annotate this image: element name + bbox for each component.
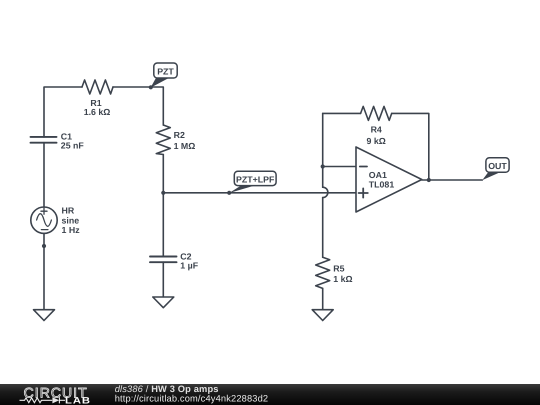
label HR value (62, 206, 81, 236)
ground (153, 297, 174, 308)
wire (163, 192, 356, 194)
svg-text:1 Hz: 1 Hz (62, 225, 81, 235)
svg-text:1 MΩ: 1 MΩ (174, 141, 196, 151)
node junction (161, 191, 165, 195)
svg-text:PZT: PZT (157, 66, 174, 76)
label R4 value (367, 125, 386, 146)
label R2 value (174, 130, 196, 151)
resistor R1 (82, 80, 113, 94)
footer url text (115, 394, 269, 404)
logo CircuitLab (20, 384, 92, 405)
label R1 value (84, 98, 111, 117)
wire (44, 87, 82, 137)
wire (43, 143, 45, 208)
label R5 value (333, 263, 352, 284)
capacitor C2 (150, 257, 177, 263)
wire minus input (323, 166, 356, 168)
resistor R4 (361, 106, 392, 120)
svg-text:25 nF: 25 nF (61, 140, 85, 150)
wire (162, 262, 164, 297)
ground (34, 310, 55, 321)
wire (43, 233, 45, 309)
svg-text:dls386 / HW 3 Op amps: dls386 / HW 3 Op amps (115, 384, 219, 394)
footer title text (115, 384, 219, 394)
svg-text:http://circuitlab.com/c4y4nk22: http://circuitlab.com/c4y4nk22883d2 (115, 394, 269, 404)
svg-text:HR: HR (62, 206, 75, 216)
svg-text:R4: R4 (371, 125, 382, 135)
wire (113, 87, 163, 125)
svg-text:1 kΩ: 1 kΩ (333, 274, 352, 284)
wire (392, 113, 429, 180)
voltage source HR (31, 207, 57, 233)
node junction (42, 244, 46, 248)
wire (162, 193, 164, 256)
label OA1 value (369, 170, 395, 189)
wire V- vertical with hop (323, 113, 328, 257)
label C2 value (180, 252, 198, 271)
flag PZT (149, 63, 178, 89)
op-amp OA1 (356, 147, 422, 212)
svg-text:sine: sine (62, 215, 80, 225)
svg-text:R2: R2 (174, 130, 185, 140)
flag OUT (482, 158, 509, 180)
node junction (427, 178, 431, 182)
node junction (321, 164, 325, 168)
ground (312, 310, 333, 321)
flag PZT+LPF (227, 171, 276, 195)
svg-text:LAB: LAB (65, 395, 91, 405)
label C1 value (61, 131, 85, 150)
svg-text:PZT+LPF: PZT+LPF (236, 174, 275, 184)
svg-text:1.6 kΩ: 1.6 kΩ (84, 107, 111, 117)
wire feedback top (323, 112, 361, 114)
wire (322, 288, 324, 309)
wire (162, 155, 164, 194)
wire output (422, 179, 483, 181)
svg-text:1 µF: 1 µF (180, 260, 198, 270)
resistor R5 (316, 257, 330, 288)
svg-text:OUT: OUT (488, 161, 507, 171)
resistor R2 (156, 125, 170, 155)
capacitor C1 (31, 137, 57, 143)
svg-text:TL081: TL081 (369, 179, 395, 189)
svg-text:R5: R5 (333, 263, 344, 273)
svg-text:9 kΩ: 9 kΩ (367, 136, 386, 146)
